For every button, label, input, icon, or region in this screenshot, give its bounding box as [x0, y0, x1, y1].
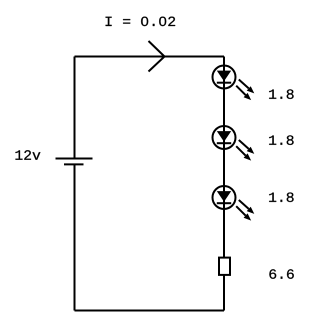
LED D2: [213, 126, 255, 161]
wire left lower (battery to bottom corner): [74, 164, 76, 310]
wire top horizontal: [75, 56, 225, 58]
label I = 0.02: [106, 17, 176, 27]
current direction arrow: [149, 41, 165, 72]
label 1.8 (D2): [269, 135, 293, 145]
wire left upper (top corner to battery): [74, 57, 76, 159]
LED D1: [213, 66, 255, 101]
wire right vertical: [223, 57, 225, 311]
label 1.8 (D1): [269, 89, 293, 99]
battery B1 short plate: [64, 163, 84, 165]
LED D3: [213, 186, 255, 221]
label 12v: [16, 150, 41, 159]
label 6.6: [269, 269, 293, 279]
resistor R1: [219, 258, 230, 275]
battery B1 long plate: [56, 158, 93, 160]
wire bottom horizontal: [75, 310, 225, 312]
label 1.8 (D3): [269, 193, 293, 203]
